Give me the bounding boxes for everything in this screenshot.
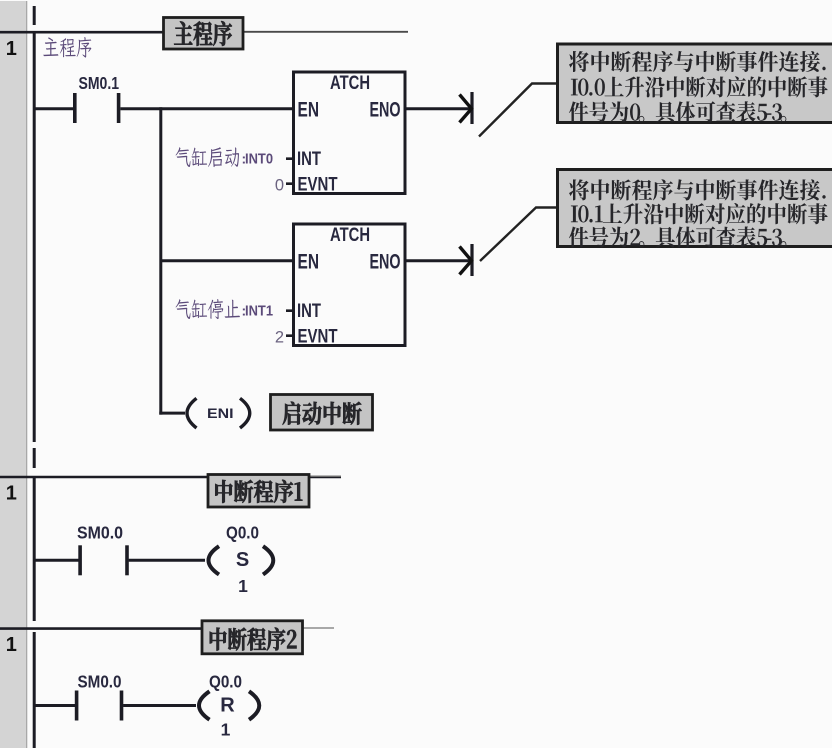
svg-text:INT0: INT0 bbox=[245, 151, 273, 167]
svg-text:Q0.0: Q0.0 bbox=[209, 671, 242, 691]
svg-text:ENO: ENO bbox=[370, 98, 401, 122]
svg-text:INT1: INT1 bbox=[245, 303, 273, 319]
svg-text:ATCH: ATCH bbox=[330, 73, 370, 94]
svg-text:Q0.0: Q0.0 bbox=[226, 522, 259, 542]
svg-text:1: 1 bbox=[6, 38, 17, 60]
svg-text:2: 2 bbox=[275, 329, 284, 347]
svg-text:1: 1 bbox=[6, 634, 17, 656]
svg-text:1: 1 bbox=[221, 720, 231, 740]
svg-text:EN: EN bbox=[298, 250, 320, 274]
svg-text:1: 1 bbox=[6, 483, 17, 505]
svg-text:EVNT: EVNT bbox=[298, 175, 338, 196]
svg-text:S: S bbox=[236, 549, 249, 571]
svg-text:ENI: ENI bbox=[207, 405, 234, 421]
svg-text:INT: INT bbox=[297, 149, 321, 170]
svg-text:0: 0 bbox=[275, 177, 284, 195]
svg-text:SM0.1: SM0.1 bbox=[79, 73, 120, 93]
svg-text:EVNT: EVNT bbox=[298, 327, 338, 348]
svg-text:EN: EN bbox=[298, 98, 320, 122]
svg-text:ENO: ENO bbox=[370, 250, 401, 274]
svg-text:1: 1 bbox=[238, 576, 248, 596]
svg-text:INT: INT bbox=[297, 301, 321, 322]
svg-text:SM0.0: SM0.0 bbox=[78, 671, 122, 691]
svg-text:R: R bbox=[220, 695, 235, 717]
svg-text:ATCH: ATCH bbox=[330, 225, 370, 246]
svg-text:SM0.0: SM0.0 bbox=[77, 522, 123, 542]
